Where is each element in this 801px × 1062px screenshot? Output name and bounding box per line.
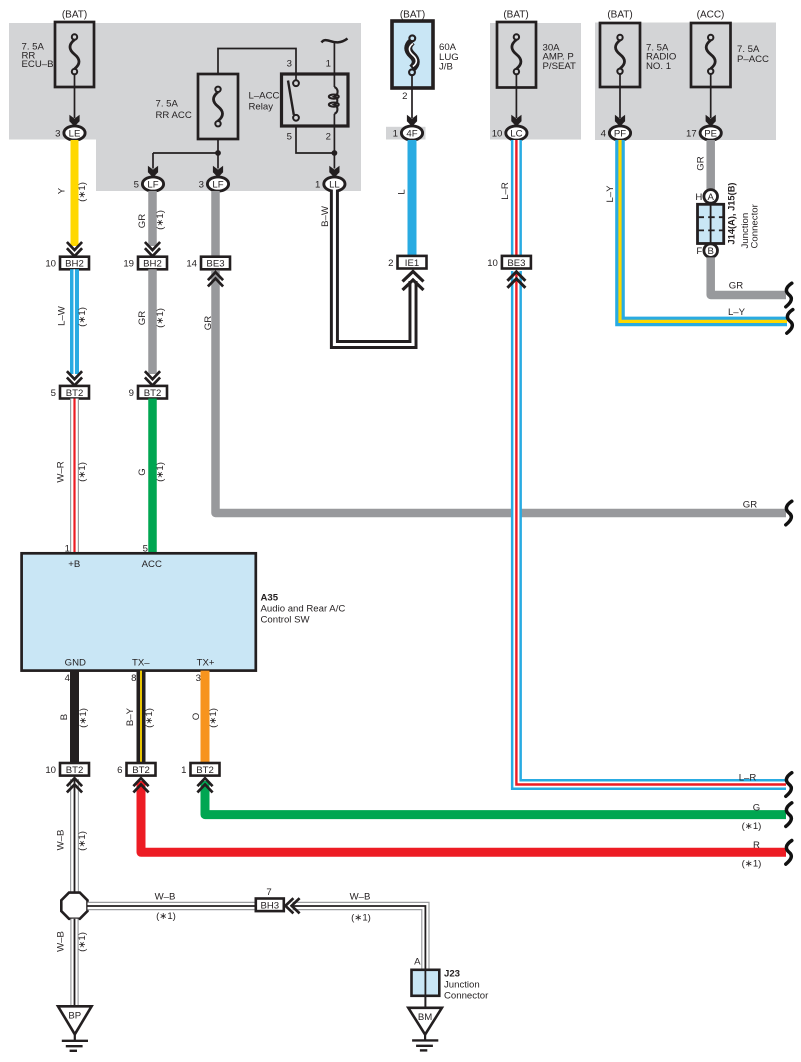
- connector LL pin 1: [315, 177, 345, 191]
- svg-text:5: 5: [287, 132, 292, 143]
- relay L-ACC: [249, 59, 349, 143]
- svg-text:10: 10: [45, 259, 56, 270]
- svg-text:W–R: W–R: [56, 461, 67, 482]
- svg-text:L–Y: L–Y: [728, 307, 746, 318]
- svg-text:P–ACC: P–ACC: [737, 54, 769, 65]
- svg-text:L–W: L–W: [57, 305, 68, 326]
- svg-text:NO. 1: NO. 1: [646, 61, 671, 72]
- svg-text:P/SEAT: P/SEAT: [543, 61, 577, 72]
- svg-text:1: 1: [393, 128, 398, 139]
- connector LC pin 10: [492, 126, 527, 140]
- fuse 7.5A P-ACC: [691, 10, 769, 88]
- svg-text:Audio and Rear A/C: Audio and Rear A/C: [261, 603, 346, 614]
- svg-text:(∗1): (∗1): [77, 932, 88, 952]
- svg-text:BM: BM: [418, 1012, 432, 1023]
- connector IE1 pin 2: [388, 256, 426, 269]
- svg-text:BT2: BT2: [144, 388, 162, 399]
- background block AMP fuse: [490, 23, 581, 140]
- svg-text:LL: LL: [329, 179, 340, 190]
- svg-text:(∗1): (∗1): [155, 462, 166, 482]
- svg-text:(∗1): (∗1): [208, 708, 219, 728]
- connector BH2 pin 10: [45, 257, 89, 270]
- wire B from A35 GND to BT2: [59, 671, 89, 764]
- svg-text:Connector: Connector: [444, 991, 489, 1002]
- svg-text:G: G: [137, 468, 148, 475]
- wire R from BT2 to right edge: [133, 778, 791, 869]
- svg-text:B: B: [707, 246, 713, 257]
- A35 Audio and Rear A/C Control SW: [22, 553, 346, 670]
- svg-text:(BAT): (BAT): [62, 10, 87, 21]
- svg-text:B–W: B–W: [320, 205, 331, 227]
- svg-text:ACC: ACC: [142, 559, 162, 570]
- svg-text:GR: GR: [203, 316, 214, 330]
- svg-text:R: R: [753, 840, 760, 851]
- svg-text:(∗1): (∗1): [77, 182, 88, 202]
- connector 4F pin 1: [393, 126, 423, 140]
- svg-text:W–B: W–B: [56, 830, 67, 851]
- svg-text:A35: A35: [261, 592, 279, 603]
- wire L-R from BE3 to right edge: [507, 271, 791, 796]
- svg-text:BE3: BE3: [507, 258, 525, 269]
- connector BE3 pin 14: [186, 257, 230, 270]
- wire B-W from LL to IE1: [320, 189, 424, 345]
- svg-text:LF: LF: [212, 179, 223, 190]
- svg-text:Junction: Junction: [444, 980, 480, 991]
- connector BH2 pin 19: [123, 257, 167, 270]
- svg-text:L–ACC: L–ACC: [249, 91, 280, 102]
- svg-text:PF: PF: [614, 128, 626, 139]
- connector LE pin 3: [55, 126, 85, 140]
- svg-text:BH3: BH3: [260, 901, 279, 912]
- wire G from BT2 to right edge: [197, 778, 791, 832]
- svg-text:H: H: [695, 192, 702, 203]
- svg-text:W–B: W–B: [56, 931, 67, 952]
- connector BT2 pin 1 lower: [181, 763, 219, 776]
- ground BM: [408, 1008, 442, 1051]
- wire G from BT2 to A35 ACC: [137, 399, 166, 555]
- svg-text:BE3: BE3: [206, 259, 224, 270]
- wire RADIO fuse to PF: [615, 74, 625, 127]
- svg-text:6: 6: [117, 765, 122, 776]
- svg-text:J14(A), J15(B): J14(A), J15(B): [727, 182, 737, 244]
- connector BE3 pin 10: [487, 256, 531, 269]
- svg-text:L–R: L–R: [739, 773, 757, 784]
- connector PE pin 17: [686, 126, 721, 140]
- svg-text:RR ACC: RR ACC: [156, 110, 192, 121]
- wire W-B octagon to BH3: [88, 892, 257, 922]
- background shading block top-left: [9, 23, 361, 191]
- svg-text:J/B: J/B: [439, 61, 453, 72]
- svg-text:GR: GR: [696, 156, 707, 170]
- svg-text:(∗1): (∗1): [742, 859, 762, 870]
- svg-text:9: 9: [129, 388, 134, 399]
- wire W-B octagon to ground BP: [56, 919, 88, 1007]
- svg-text:GR: GR: [743, 500, 757, 511]
- wavy continuation above relay pin 1: [322, 39, 348, 43]
- junction connector J14(A) J15(B): [695, 182, 760, 257]
- svg-text:GR: GR: [137, 214, 148, 228]
- svg-text:GR: GR: [137, 311, 148, 325]
- svg-text:1: 1: [181, 765, 186, 776]
- wire W-B from BT2 to octagon junction: [56, 778, 88, 893]
- svg-text:BT2: BT2: [196, 765, 214, 776]
- svg-text:TX+: TX+: [197, 657, 215, 668]
- svg-text:2: 2: [326, 132, 331, 143]
- wire J23 to ground BM: [424, 996, 426, 1008]
- svg-text:7: 7: [266, 887, 271, 898]
- svg-text:BH2: BH2: [65, 259, 84, 270]
- svg-text:10: 10: [492, 128, 503, 139]
- svg-text:BT2: BT2: [66, 765, 84, 776]
- wire GR from junction connector B to right edge: [711, 257, 792, 306]
- fusible link 60A LUG J/B: [392, 10, 459, 89]
- svg-text:BT2: BT2: [66, 388, 84, 399]
- wire O from A35 TX+ to BT2: [191, 671, 219, 764]
- svg-text:(∗1): (∗1): [77, 307, 88, 327]
- svg-text:3: 3: [55, 128, 60, 139]
- background strip behind 4F: [386, 127, 426, 140]
- wire GR from LF3 to BE3: [211, 191, 220, 257]
- wire LUG to 4F: [402, 75, 417, 127]
- svg-text:3: 3: [199, 179, 204, 190]
- wire Y from LE to BH2: [57, 140, 89, 256]
- svg-text:L: L: [397, 189, 408, 195]
- connector LF pin 5: [134, 177, 164, 191]
- svg-text:5: 5: [51, 388, 56, 399]
- svg-text:O: O: [191, 713, 202, 720]
- connector BT2 pin 5: [51, 386, 89, 399]
- relay coil: [329, 74, 339, 126]
- wire GR long from BE3 to right edge: [203, 271, 792, 525]
- svg-text:5: 5: [134, 179, 139, 190]
- svg-text:3: 3: [196, 673, 201, 684]
- connector BT2 pin 10 lower: [45, 763, 89, 776]
- junction connector J23: [412, 957, 490, 1002]
- svg-text:GR: GR: [729, 281, 743, 292]
- svg-text:+B: +B: [68, 559, 80, 570]
- wire pin1 top: [333, 43, 335, 74]
- svg-text:Connector: Connector: [750, 203, 761, 248]
- svg-text:3: 3: [287, 59, 292, 70]
- svg-text:W–B: W–B: [155, 892, 176, 903]
- svg-text:LF: LF: [147, 179, 158, 190]
- wire W-B BH3 to J23: [285, 892, 425, 971]
- svg-text:(∗1): (∗1): [156, 911, 176, 922]
- fuse RR ACC 7.5A: [156, 74, 239, 139]
- svg-text:BP: BP: [68, 1011, 81, 1022]
- svg-text:19: 19: [123, 259, 134, 270]
- wire W-R from BT2 to A35 +B: [56, 399, 88, 555]
- svg-text:(∗1): (∗1): [155, 308, 166, 328]
- svg-text:1: 1: [315, 179, 320, 190]
- wire GR from LF5 to BH2: [137, 191, 166, 256]
- relay switch contacts: [288, 74, 299, 121]
- svg-text:4F: 4F: [406, 128, 417, 139]
- svg-text:B: B: [59, 714, 70, 720]
- svg-text:(∗1): (∗1): [155, 210, 166, 230]
- connector BT2 pin 9: [129, 386, 167, 399]
- svg-text:A: A: [707, 192, 714, 203]
- wire L-W from BH2 to BT2: [57, 269, 89, 385]
- connector LF pin 3: [199, 177, 229, 191]
- svg-text:(∗1): (∗1): [144, 708, 155, 728]
- svg-text:(∗1): (∗1): [351, 912, 371, 923]
- wire GR from PE to junction connector: [696, 140, 711, 190]
- wire B-Y from A35 TX- to BT2: [125, 671, 155, 764]
- svg-text:IE1: IE1: [405, 258, 419, 269]
- fuse 30A AMP P P/SEAT: [497, 10, 576, 88]
- svg-text:Relay: Relay: [249, 102, 274, 113]
- svg-text:2: 2: [388, 258, 393, 269]
- svg-text:(∗1): (∗1): [77, 831, 88, 851]
- svg-text:B–Y: B–Y: [125, 707, 136, 726]
- wire relay pin3 to fuse RR ACC top: [218, 49, 296, 75]
- svg-text:(BAT): (BAT): [607, 10, 632, 21]
- background block radio/p-acc fuses: [595, 23, 776, 141]
- connector BT2 pin 6 lower: [117, 763, 155, 776]
- svg-text:TX–: TX–: [132, 657, 150, 668]
- svg-text:17: 17: [686, 128, 697, 139]
- svg-text:(ACC): (ACC): [697, 10, 725, 21]
- svg-text:(∗1): (∗1): [77, 462, 88, 482]
- wire GR from BH2 to BT2: [137, 269, 166, 385]
- svg-text:(BAT): (BAT): [400, 10, 425, 21]
- svg-text:10: 10: [487, 258, 498, 269]
- fuse RR ECU-B 7.5A: [22, 10, 95, 88]
- fuse 7.5A RADIO NO.1: [600, 10, 676, 88]
- svg-text:10: 10: [45, 765, 56, 776]
- wire fuse RR ACC bottom junction: [148, 139, 223, 178]
- wire fuse RR ECU-B to LE: [69, 74, 79, 127]
- svg-text:A: A: [414, 957, 421, 968]
- svg-text:8: 8: [131, 673, 136, 684]
- wire L from 4F to IE1: [397, 140, 413, 257]
- svg-text:ECU–B: ECU–B: [22, 59, 54, 70]
- svg-text:W–B: W–B: [350, 892, 371, 903]
- svg-text:G: G: [753, 803, 760, 814]
- svg-text:L–Y: L–Y: [605, 185, 616, 203]
- ground BP: [58, 1006, 92, 1051]
- wire L-Y from PF to right edge: [605, 140, 793, 333]
- svg-text:LC: LC: [510, 128, 522, 139]
- svg-text:PE: PE: [704, 128, 717, 139]
- svg-text:(∗1): (∗1): [742, 821, 762, 832]
- svg-text:Control SW: Control SW: [261, 614, 311, 625]
- wire P-ACC fuse to PE: [706, 74, 716, 127]
- svg-text:7. 5A: 7. 5A: [156, 99, 179, 110]
- svg-text:BT2: BT2: [132, 765, 150, 776]
- wire L-R from LC to BE3: [500, 140, 517, 257]
- wire AMP fuse to LC: [511, 74, 521, 127]
- svg-text:L–R: L–R: [500, 182, 511, 200]
- svg-text:(∗1): (∗1): [78, 708, 89, 728]
- svg-text:1: 1: [326, 59, 331, 70]
- connector BH3 pin 7: [256, 887, 284, 912]
- svg-text:BH2: BH2: [143, 259, 162, 270]
- svg-text:2: 2: [402, 91, 407, 102]
- svg-text:4: 4: [65, 673, 71, 684]
- svg-text:Y: Y: [57, 187, 68, 194]
- svg-text:J23: J23: [444, 969, 460, 980]
- svg-text:(BAT): (BAT): [503, 10, 528, 21]
- octagon junction node: [61, 893, 87, 919]
- svg-text:14: 14: [186, 259, 197, 270]
- svg-text:LE: LE: [69, 128, 81, 139]
- connector PF pin 4: [601, 126, 631, 140]
- svg-text:GND: GND: [65, 657, 86, 668]
- svg-text:F: F: [696, 246, 702, 257]
- svg-text:4: 4: [601, 128, 607, 139]
- wire relay pin5 pin2 junction: [296, 126, 340, 178]
